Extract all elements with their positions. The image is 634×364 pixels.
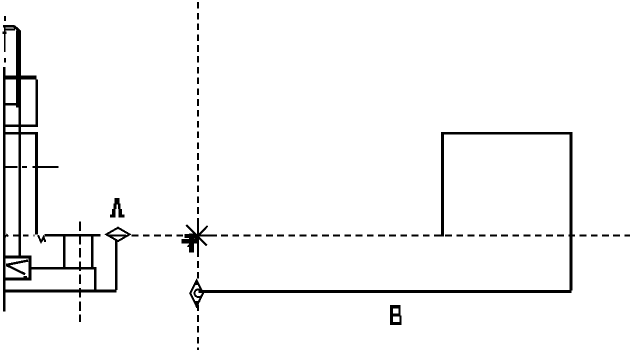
star marker horizontal ray (185, 235, 210, 237)
left edge main vertical (3, 67, 6, 311)
local centerline horizontal (dash-dot) (4, 166, 58, 168)
star marker bold plus horizontal (182, 239, 200, 244)
insert small dash (23, 276, 27, 278)
centerline horizontal left dashes (13, 235, 35, 237)
line B horizontal (199, 290, 572, 293)
part bottom edge (3, 289, 116, 292)
marker B diamond top fill (194, 280, 199, 285)
marker A diamond (106, 228, 129, 241)
shelf right vertical (36, 80, 39, 127)
blade thick upper section (16, 31, 21, 108)
centerline horizontal tick at left edge (5, 235, 8, 237)
left edge thin upper (4, 25, 6, 52)
insert triangle top edge (6, 261, 28, 265)
step vertical left (63, 236, 66, 267)
star marker bold plus vertical (189, 234, 194, 253)
step corner vertical (94, 268, 97, 291)
insert triangle bottom edge (6, 265, 25, 274)
right block outline (442, 133, 571, 290)
step vertical right (91, 236, 94, 267)
marker B diamond bottom fill (193, 301, 201, 306)
star marker vertical ray (197, 224, 199, 253)
short ledge segment (3, 31, 7, 34)
marker A leader vertical (115, 237, 117, 291)
blade narrow lower section (18, 107, 21, 257)
label A (110, 198, 125, 217)
mid horizontal upper (3, 124, 38, 127)
marker B inner arc (194, 289, 200, 297)
star marker bold wedge (185, 234, 198, 238)
star marker diagonal NE-SW (188, 226, 208, 247)
chamfer edge (14, 26, 20, 32)
step horizontal shelf (30, 267, 96, 270)
centerline horizontal right dashed run (132, 235, 630, 237)
part edge solid segment on centerline (45, 234, 101, 236)
star marker diagonal NW-SE (186, 225, 207, 246)
mid horizontal lower (3, 132, 38, 134)
marker A diamond crossline (109, 234, 127, 236)
top edge line upper (3, 25, 14, 27)
right block right edge emphasis (569, 134, 572, 291)
step horizontal at blade shoulder (3, 103, 18, 106)
label B (390, 305, 402, 325)
centerline vertical (main dashed axis) (197, 2, 199, 350)
upper shelf horizontal (3, 76, 37, 80)
middle column vertical (35, 134, 38, 235)
left axis dash mid (4, 58, 6, 63)
left axis dash top (4, 16, 6, 21)
sketch arrowhead v at column base (38, 235, 46, 242)
local centerline vertical (dash-dot) (79, 222, 81, 323)
marker B diamond (190, 280, 203, 306)
top edge line lower (4, 28, 15, 30)
insert box outline (4, 257, 30, 279)
